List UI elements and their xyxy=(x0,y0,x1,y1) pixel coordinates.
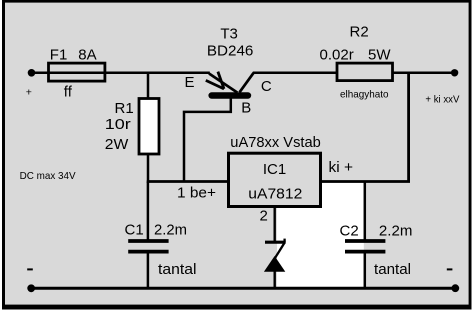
capacitor C2 top plate xyxy=(345,239,385,243)
wire zener to ground rail xyxy=(274,270,276,288)
svg-text:C1: C1 xyxy=(125,221,144,238)
wire collector to R2 xyxy=(253,72,338,75)
capacitor C2 bottom plate xyxy=(345,250,385,254)
svg-text:F1: F1 xyxy=(50,47,68,64)
svg-text:5W: 5W xyxy=(368,47,391,64)
wire C2 bottom to ground rail xyxy=(364,253,367,288)
svg-text:8A: 8A xyxy=(78,47,96,64)
wire R2 to output terminal xyxy=(393,72,453,75)
wire input rail through fuse to emitter xyxy=(32,72,210,75)
svg-text:tantal: tantal xyxy=(158,261,197,278)
svg-text:BD246: BD246 xyxy=(207,43,254,60)
svg-text:2: 2 xyxy=(260,207,268,224)
label - (right minus) xyxy=(447,268,453,270)
wire C2 top xyxy=(364,182,367,242)
svg-text:1 be+: 1 be+ xyxy=(177,184,216,201)
node + input terminal dot xyxy=(28,69,36,77)
svg-text:0.02r: 0.02r xyxy=(320,47,354,64)
transistor T3 emitter arrow barb 2 xyxy=(206,80,224,89)
svg-text:2.2m: 2.2m xyxy=(154,221,187,238)
label - (left minus) xyxy=(27,268,33,270)
ground rail (minus bus) xyxy=(31,287,456,290)
wire be+ input pin xyxy=(147,180,229,183)
svg-text:tantal: tantal xyxy=(374,261,411,278)
svg-text:+: + xyxy=(26,87,32,99)
zener diode anode triangle xyxy=(264,256,285,272)
wire R1 top tap xyxy=(147,73,150,100)
transistor T3 emitter diagonal xyxy=(209,74,237,93)
transistor T3 emitter arrow barb 1 xyxy=(218,72,224,89)
svg-text:R1: R1 xyxy=(115,100,134,117)
svg-text:uA7812: uA7812 xyxy=(248,185,302,202)
wire C1 bottom to ground rail xyxy=(147,253,150,288)
svg-text:R2: R2 xyxy=(350,23,369,40)
capacitor C1 bottom plate xyxy=(128,250,168,254)
wire IC1 pin 2 down xyxy=(274,206,276,241)
svg-text:elhagyhato: elhagyhato xyxy=(340,89,389,101)
svg-text:10r: 10r xyxy=(105,116,131,133)
svg-text:E: E xyxy=(185,74,195,91)
wire ki+ output pin to output rail xyxy=(321,72,409,182)
transistor T3 collector diagonal xyxy=(239,73,253,93)
white redraw patch right of IC1 above C2 xyxy=(322,183,364,287)
svg-text:C2: C2 xyxy=(340,223,359,240)
zener diode cathode bar xyxy=(265,241,286,244)
svg-text:ff: ff xyxy=(64,84,73,101)
svg-text:2.2m: 2.2m xyxy=(379,223,413,240)
svg-text:B: B xyxy=(241,100,251,117)
svg-text:ki +: ki + xyxy=(329,159,354,176)
resistor R1 xyxy=(139,99,159,155)
svg-text:C: C xyxy=(261,78,272,95)
node - right terminal dot xyxy=(451,284,459,292)
wire base down and left xyxy=(184,97,231,182)
svg-text:DC max 34V: DC max 34V xyxy=(20,170,76,182)
node + output terminal dot xyxy=(451,69,458,76)
svg-text:2W: 2W xyxy=(105,136,129,153)
wire C1 top xyxy=(147,182,150,242)
transistor Q T3 base bar xyxy=(212,92,248,98)
white redraw patch below IC1 right of zener xyxy=(277,208,322,287)
svg-text:+ ki xxV: + ki xxV xyxy=(425,95,459,106)
svg-text:uA78xx Vstab: uA78xx Vstab xyxy=(230,134,320,151)
svg-text:IC1: IC1 xyxy=(263,161,286,178)
zener diode Z diagonal xyxy=(275,243,285,259)
wire R1 bottom to be+ node xyxy=(147,154,150,183)
op-amp regulator IC1 box xyxy=(229,153,321,206)
node - left terminal dot xyxy=(27,284,35,292)
svg-text:T3: T3 xyxy=(220,25,238,42)
zener diode cathode right tick xyxy=(283,239,285,243)
capacitor C1 top plate xyxy=(128,239,168,243)
resistor R2 xyxy=(337,63,393,81)
fuse F1 xyxy=(49,63,105,81)
